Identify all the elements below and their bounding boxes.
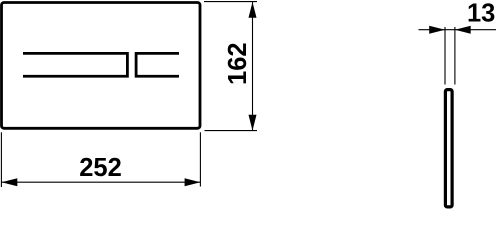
dimension 13: left arrowhead [429, 26, 445, 34]
dimension 162: bottom extension line [205, 130, 258, 132]
dimension 252: left extension line [0, 132, 2, 187]
left button bar [23, 53, 127, 76]
dimension 252: left arrowhead [2, 178, 18, 186]
dimension 252: right arrowhead [185, 178, 201, 186]
svg-text:13: 13 [467, 0, 495, 27]
right button bar [136, 53, 179, 76]
dimension 13: dimension line [419, 29, 497, 31]
side profile bar (side view) [445, 90, 452, 207]
dimension 162: dimension line [252, 2, 254, 131]
dimension 162: top arrowhead [249, 2, 257, 18]
dimension 252: right extension line [199, 132, 201, 186]
dimension 162: top extension line [204, 1, 257, 3]
dimension 13: left extension line [444, 27, 446, 85]
dimension 13: right extension line [454, 27, 456, 85]
svg-text:162: 162 [224, 42, 252, 85]
svg-text:252: 252 [79, 154, 122, 182]
dimension 13: right arrowhead [455, 26, 471, 34]
dimension 252: dimension line [2, 181, 201, 183]
plate outline (front view) [2, 3, 201, 129]
dimension 162: bottom arrowhead [249, 115, 257, 131]
